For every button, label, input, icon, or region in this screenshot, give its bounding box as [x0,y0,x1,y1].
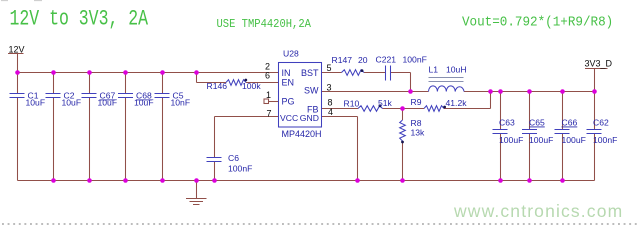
svg-text:BST: BST [301,68,319,78]
svg-text:12V to 3V3, 2A: 12V to 3V3, 2A [10,6,149,31]
svg-text:100k: 100k [242,81,261,91]
svg-text:10uF: 10uF [98,98,118,108]
svg-text:VCC: VCC [280,113,298,123]
svg-text:R10: R10 [344,99,360,109]
svg-text:GND: GND [300,113,319,123]
svg-text:U28: U28 [283,49,299,59]
svg-text:3: 3 [327,83,332,93]
svg-text:C6: C6 [228,153,239,163]
svg-text:10uF: 10uF [62,98,82,108]
svg-text:C221: C221 [376,55,397,65]
svg-text:1: 1 [266,90,271,100]
svg-text:C65: C65 [529,118,545,128]
svg-text:51k: 51k [378,98,393,108]
svg-text:PG: PG [282,97,295,107]
svg-text:7: 7 [266,109,271,119]
svg-text:MP4420H: MP4420H [282,129,322,139]
svg-text:IN: IN [282,68,291,78]
svg-text:8: 8 [328,98,333,108]
svg-text:13k: 13k [411,128,426,138]
svg-text:100uF: 100uF [499,135,523,145]
svg-text:R8: R8 [411,118,422,128]
svg-text:C66: C66 [562,118,578,128]
svg-text:R9: R9 [411,97,422,107]
svg-text:100nF: 100nF [228,164,252,174]
svg-text:C63: C63 [499,118,515,128]
svg-text:R147: R147 [332,55,353,65]
svg-text:100nF: 100nF [593,135,617,145]
svg-text:L1: L1 [429,65,439,75]
svg-text:R146: R146 [207,81,228,91]
svg-text:Vout=0.792*(1+R9/R8): Vout=0.792*(1+R9/R8) [462,14,613,29]
svg-text:10uH: 10uH [446,65,467,75]
svg-text:41.2k: 41.2k [446,98,468,108]
svg-text:12V: 12V [9,45,25,55]
svg-text:EN: EN [282,78,295,88]
svg-text:4: 4 [328,107,333,117]
svg-text:10uF: 10uF [134,98,154,108]
svg-text:100uF: 100uF [562,135,586,145]
svg-text:C62: C62 [593,118,609,128]
svg-text:USE TMP4420H,2A: USE TMP4420H,2A [217,18,312,31]
svg-text:6: 6 [265,71,270,81]
svg-text:10uF: 10uF [26,98,46,108]
svg-text:100uF: 100uF [529,135,553,145]
svg-text:www.cntronics.com: www.cntronics.com [453,201,623,221]
svg-text:20: 20 [358,55,368,65]
svg-text:3V3_D: 3V3_D [585,59,613,69]
svg-text:100nF: 100nF [403,55,427,65]
svg-text:SW: SW [304,86,319,96]
svg-text:10nF: 10nF [171,98,191,108]
svg-text:FB: FB [307,104,319,114]
